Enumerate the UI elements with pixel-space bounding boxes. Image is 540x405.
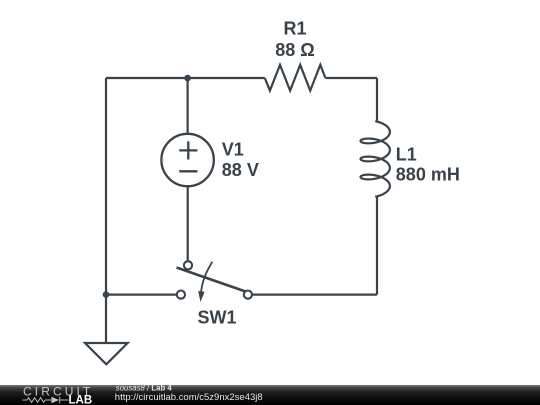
svg-text:L1: L1 bbox=[396, 145, 417, 165]
wire bottom right to switch right terminal bbox=[252, 294, 377, 296]
switch left terminal circle bbox=[177, 291, 185, 299]
ground bbox=[85, 343, 128, 364]
wire V1 top to junction bbox=[187, 78, 189, 134]
switch right terminal circle bbox=[244, 291, 252, 299]
wire switch top terminal up to V1 bbox=[187, 187, 189, 262]
svg-text:http://circuitlab.com/c5z9nx2s: http://circuitlab.com/c5z9nx2se43j8 bbox=[115, 392, 263, 403]
footer bar bbox=[0, 385, 540, 405]
junction dot top node bbox=[184, 75, 191, 82]
plus sign bbox=[179, 141, 197, 159]
wire top from left corner to resistor bbox=[106, 77, 265, 79]
voltage source V1 bbox=[161, 134, 213, 186]
junction dot bottom-left node bbox=[103, 291, 110, 298]
svg-text:88 Ω: 88 Ω bbox=[275, 40, 314, 60]
wire right vertical down to inductor bbox=[376, 78, 378, 121]
wire ground stem bbox=[105, 295, 107, 343]
switch top terminal circle bbox=[184, 261, 192, 269]
wire resistor to top-right corner bbox=[325, 77, 377, 79]
svg-text:88 V: 88 V bbox=[222, 160, 259, 180]
minus sign bbox=[179, 170, 197, 172]
resistor R1 bbox=[265, 65, 326, 91]
switch motion arrow bbox=[201, 262, 212, 292]
inductor L1 bbox=[361, 121, 390, 197]
CircuitLab logo circuit glyph (resistor + diode) bbox=[23, 397, 69, 404]
svg-text:SW1: SW1 bbox=[197, 307, 236, 327]
svg-text:LAB: LAB bbox=[69, 395, 93, 405]
wire left vertical bbox=[105, 78, 107, 295]
svg-text:V1: V1 bbox=[222, 140, 244, 160]
switch lever bbox=[177, 268, 246, 292]
svg-text:R1: R1 bbox=[283, 19, 306, 39]
svg-text:880 mH: 880 mH bbox=[396, 165, 460, 185]
wire bottom-left to switch left terminal bbox=[106, 294, 177, 296]
wire inductor to bottom-right corner bbox=[376, 197, 378, 295]
switch SW1 bbox=[177, 261, 252, 302]
